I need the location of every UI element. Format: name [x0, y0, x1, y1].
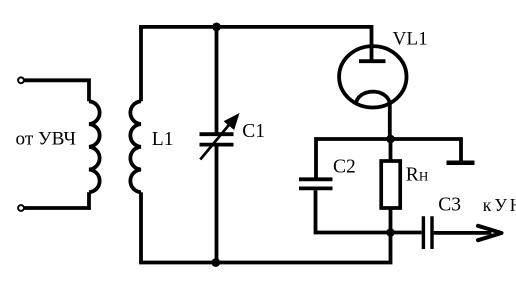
- junction dot top (C1 tap on top bus): [212, 23, 221, 32]
- inductor primary winding: [89, 101, 100, 192]
- wire cathode lead down: [388, 102, 392, 139]
- capacitor C3 plates: [423, 216, 432, 249]
- arrowhead of C1 variable arrow: [224, 113, 240, 130]
- svg-text:VL1: VL1: [393, 28, 428, 49]
- terminal input bottom: [18, 205, 24, 211]
- wire node to C3: [391, 231, 422, 235]
- resistor Rн body: [381, 161, 400, 208]
- svg-text:НЧ: НЧ: [510, 195, 516, 215]
- capacitor C1 plates: [200, 134, 234, 144]
- inductor L1: [130, 101, 141, 192]
- svg-text:C2: C2: [333, 156, 356, 177]
- svg-text:к: к: [483, 195, 492, 215]
- wire L1 upper lead: [139, 25, 143, 101]
- wire resistor lower lead: [389, 208, 393, 233]
- wire C3 output shaft: [434, 231, 492, 235]
- wire C2 lower lead to node line: [316, 190, 393, 232]
- wire primary bottom: coil to terminal: [25, 192, 90, 208]
- svg-text:У: У: [495, 195, 508, 215]
- output arrowhead: [478, 226, 502, 240]
- wire primary top: terminal to coil: [25, 80, 90, 101]
- tube VL1 anode bar: [359, 59, 386, 63]
- wire node line to C2 and ground: [316, 139, 461, 178]
- svg-text:от УВЧ: от УВЧ: [16, 128, 76, 149]
- tube VL1 envelope: [339, 46, 406, 107]
- svg-text:RН: RН: [406, 164, 428, 185]
- terminal input top: [18, 77, 24, 83]
- svg-text:C1: C1: [242, 121, 265, 142]
- tube VL1 cathode arc: [356, 92, 389, 104]
- ground bar: [447, 161, 475, 166]
- wire C1 upper lead: [215, 25, 219, 132]
- svg-text:C3: C3: [438, 194, 461, 215]
- variable arrow of C1: [200, 123, 230, 160]
- wire top bus with anode lead: [139, 27, 371, 60]
- wire resistor upper lead: [389, 139, 393, 162]
- junction dot resistor bottom node: [386, 228, 395, 237]
- wire L1 lower lead + bottom bus: [141, 192, 391, 262]
- junction dot bottom bus (C1 tap): [211, 258, 220, 267]
- svg-text:L1: L1: [152, 129, 174, 150]
- junction dot cathode node: [386, 135, 395, 144]
- capacitor C2 plates: [299, 179, 333, 188]
- wire C1 lower lead: [215, 146, 219, 264]
